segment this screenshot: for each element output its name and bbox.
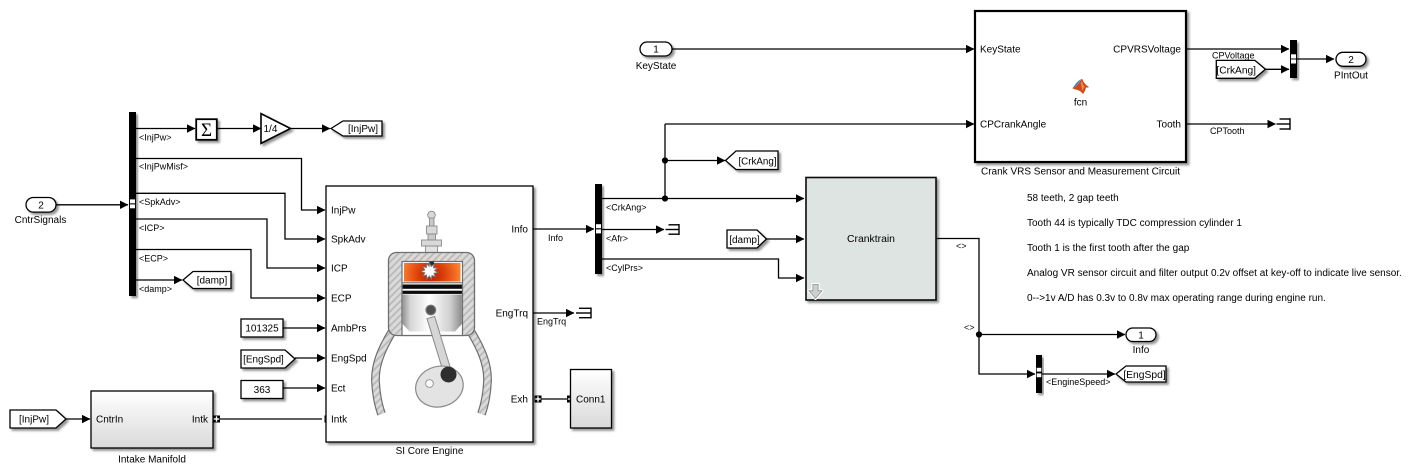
- svg-text:Intk: Intk: [192, 415, 209, 426]
- svg-text:Cranktrain: Cranktrain: [847, 234, 895, 245]
- svg-text:Tooth: Tooth: [1157, 120, 1181, 131]
- svg-text:[CrkAng]: [CrkAng]: [738, 157, 776, 168]
- svg-text:58 teeth, 2 gap teeth: 58 teeth, 2 gap teeth: [1027, 193, 1119, 204]
- svg-text:363: 363: [254, 385, 271, 396]
- svg-text:SpkAdv: SpkAdv: [331, 235, 365, 246]
- svg-text:2: 2: [1348, 55, 1354, 66]
- svg-text:<CrkAng>: <CrkAng>: [606, 203, 647, 213]
- svg-text:CPTooth: CPTooth: [1210, 126, 1245, 136]
- svg-text:CPVRSVoltage: CPVRSVoltage: [1113, 45, 1181, 56]
- svg-text:<Afr>: <Afr>: [606, 234, 628, 244]
- svg-text:[InjPw]: [InjPw]: [348, 124, 378, 135]
- svg-text:2: 2: [38, 201, 44, 212]
- svg-text:Analog VR sensor circuit and f: Analog VR sensor circuit and filter outp…: [1027, 268, 1402, 279]
- svg-text:EngTrq: EngTrq: [496, 309, 528, 320]
- svg-text:KeyState: KeyState: [636, 61, 677, 72]
- svg-text:Info: Info: [511, 225, 528, 236]
- svg-text:Info: Info: [548, 233, 563, 243]
- svg-text:fcn: fcn: [1074, 98, 1087, 109]
- svg-text:CntrSignals: CntrSignals: [15, 215, 67, 226]
- svg-text:Tooth 44 is typically TDC comp: Tooth 44 is typically TDC compression cy…: [1027, 218, 1242, 229]
- svg-text:CntrIn: CntrIn: [96, 415, 123, 426]
- svg-text:<InjPw>: <InjPw>: [139, 133, 172, 143]
- svg-text:<damp>: <damp>: [139, 284, 172, 294]
- svg-text:CPVoltage: CPVoltage: [1212, 51, 1255, 61]
- svg-text:ECP: ECP: [331, 294, 352, 305]
- svg-text:[CrkAng]: [CrkAng]: [1216, 65, 1256, 76]
- svg-text:Ect: Ect: [331, 384, 346, 395]
- svg-text:InjPw: InjPw: [331, 206, 356, 217]
- svg-text:Info: Info: [1133, 345, 1150, 356]
- svg-text:[damp]: [damp]: [197, 276, 228, 287]
- svg-text:[EngSpd]: [EngSpd]: [243, 355, 284, 366]
- svg-text:1/4: 1/4: [264, 124, 278, 135]
- svg-text:Intk: Intk: [331, 415, 348, 426]
- svg-text:Σ: Σ: [201, 120, 212, 141]
- svg-text:CPCrankAngle: CPCrankAngle: [980, 120, 1047, 131]
- svg-text:ICP: ICP: [331, 264, 348, 275]
- svg-text:<InjPwMisf>: <InjPwMisf>: [139, 162, 188, 172]
- svg-text:1: 1: [653, 45, 659, 56]
- svg-text:KeyState: KeyState: [980, 45, 1021, 56]
- svg-text:[damp]: [damp]: [729, 235, 760, 246]
- svg-text:<>: <>: [956, 241, 967, 251]
- svg-text:[EngSpd]: [EngSpd]: [1123, 370, 1166, 381]
- svg-text:101325: 101325: [245, 324, 279, 335]
- svg-text:Exh: Exh: [511, 395, 528, 406]
- svg-text:<CylPrs>: <CylPrs>: [606, 263, 643, 273]
- svg-text:SI Core Engine: SI Core Engine: [396, 446, 464, 457]
- svg-text:<EngineSpeed>: <EngineSpeed>: [1046, 377, 1111, 387]
- svg-text:1: 1: [1138, 330, 1144, 341]
- svg-text:<ICP>: <ICP>: [139, 223, 165, 233]
- svg-text:EngTrq: EngTrq: [537, 317, 566, 327]
- svg-text:Crank VRS Sensor and Measureme: Crank VRS Sensor and Measurement Circuit: [981, 167, 1180, 178]
- svg-text:<SpkAdv>: <SpkAdv>: [139, 197, 181, 207]
- svg-text:<ECP>: <ECP>: [139, 254, 168, 264]
- svg-text:AmbPrs: AmbPrs: [331, 324, 367, 335]
- svg-text:<>: <>: [964, 323, 975, 333]
- svg-text:Intake Manifold: Intake Manifold: [118, 455, 186, 466]
- svg-text:0-->1v A/D has 0.3v to 0.8v ma: 0-->1v A/D has 0.3v to 0.8v max operatin…: [1027, 293, 1326, 304]
- svg-text:PIntOut: PIntOut: [1334, 71, 1368, 82]
- svg-text:Conn1: Conn1: [576, 394, 606, 405]
- svg-text:[InjPw]: [InjPw]: [19, 415, 49, 426]
- svg-text:EngSpd: EngSpd: [331, 354, 367, 365]
- svg-text:Tooth 1 is the first tooth aft: Tooth 1 is the first tooth after the gap: [1027, 243, 1190, 254]
